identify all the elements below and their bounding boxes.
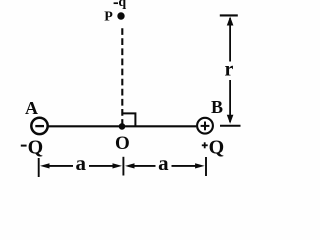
- svg-text:Q: Q: [28, 137, 44, 159]
- label O: [115, 133, 130, 154]
- right a arrow right part: [172, 163, 205, 168]
- label +Q: [202, 136, 224, 158]
- right angle mark at O: [122, 113, 135, 126]
- r dimension upper line with up arrowhead: [227, 17, 234, 62]
- right a arrow left part: [125, 163, 156, 168]
- label -q: [114, 0, 127, 10]
- dashed line P to O: [121, 28, 123, 125]
- wire line A to B: [48, 125, 196, 127]
- r dimension bottom tick: [220, 125, 241, 127]
- svg-text:Q: Q: [209, 136, 225, 158]
- charge dot at P: [117, 12, 124, 19]
- middle tick of a dimension: [122, 157, 124, 176]
- svg-text:B: B: [211, 97, 223, 117]
- r dimension top bar: [220, 14, 238, 16]
- svg-text:a: a: [158, 151, 169, 175]
- point P label: [104, 9, 113, 24]
- svg-text:O: O: [115, 133, 130, 154]
- svg-text:A: A: [25, 98, 38, 118]
- left a arrow left part: [40, 163, 73, 168]
- left a arrow right part: [89, 163, 122, 168]
- label a left: [76, 151, 87, 175]
- svg-text:a: a: [76, 151, 87, 175]
- svg-text:q: q: [118, 0, 126, 10]
- right tick of a dimension: [205, 157, 207, 176]
- label a right: [158, 151, 169, 175]
- svg-text:P: P: [104, 9, 113, 24]
- node O dot: [119, 123, 126, 130]
- left tick of a dimension: [38, 158, 40, 177]
- charge B circle with plus: [197, 118, 213, 134]
- label -Q: [21, 137, 43, 159]
- charge A circle with minus: [31, 118, 47, 134]
- svg-text:r: r: [225, 59, 234, 81]
- label B: [211, 97, 223, 117]
- r dimension lower line with down arrowhead: [227, 80, 234, 124]
- label A: [25, 98, 38, 118]
- label r: [225, 59, 234, 81]
